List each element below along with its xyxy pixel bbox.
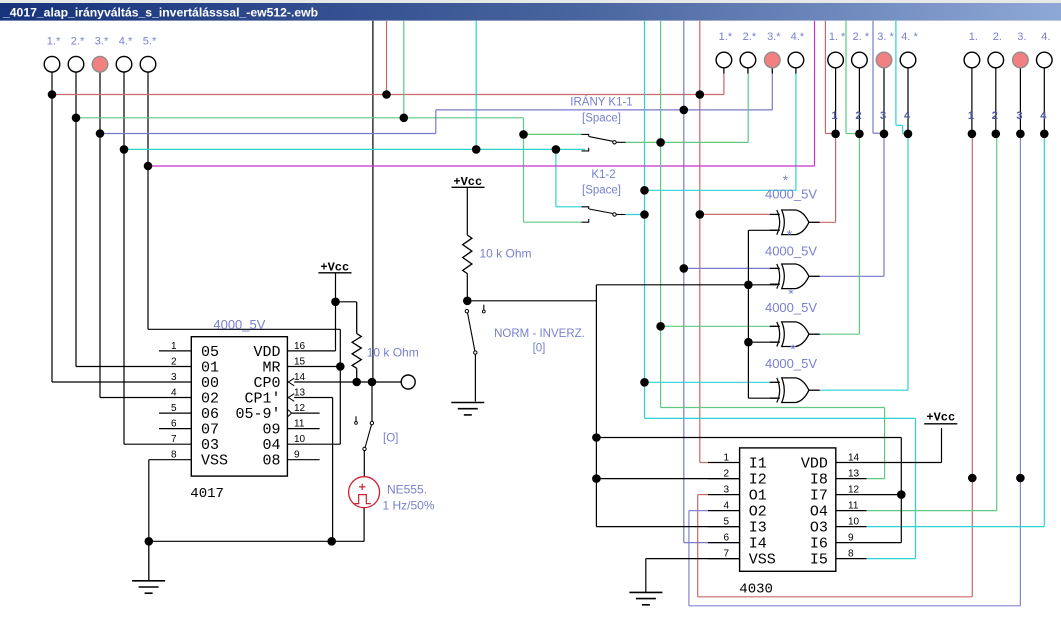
svg-text:[0]: [0] (533, 343, 546, 355)
svg-text:*: * (790, 341, 796, 357)
svg-text:[Space]: [Space] (582, 113, 621, 125)
svg-text:4000_5V: 4000_5V (765, 300, 817, 315)
svg-text:1: 1 (832, 110, 838, 122)
svg-text:2.*: 2.* (71, 36, 85, 48)
svg-text:2: 2 (855, 110, 861, 122)
svg-text:8: 8 (171, 450, 177, 461)
svg-text:13: 13 (294, 388, 306, 399)
svg-text:4: 4 (723, 501, 729, 512)
svg-text:14: 14 (294, 372, 306, 383)
svg-text:K1-2: K1-2 (591, 169, 615, 181)
svg-text:05-9': 05-9' (235, 406, 280, 423)
svg-text:VDD: VDD (801, 456, 828, 473)
svg-text:12: 12 (848, 485, 860, 496)
svg-text:13: 13 (848, 469, 860, 480)
svg-text:NE555.: NE555. (387, 483, 427, 497)
svg-text:3.*: 3.* (95, 36, 109, 48)
svg-text:1: 1 (723, 453, 729, 464)
svg-text:3: 3 (1016, 110, 1022, 122)
svg-text:10: 10 (294, 434, 306, 445)
svg-text:NORM - INVERZ.: NORM - INVERZ. (494, 328, 585, 340)
svg-text:+Vcc: +Vcc (926, 411, 955, 425)
svg-text:*: * (788, 286, 794, 302)
svg-text:1. *: 1. * (829, 31, 846, 43)
svg-text:I4: I4 (749, 536, 767, 553)
svg-text:1 Hz/50%: 1 Hz/50% (383, 499, 435, 513)
svg-text:4: 4 (1040, 110, 1047, 122)
svg-text:CP1': CP1' (244, 391, 280, 408)
svg-text:[O]: [O] (383, 433, 398, 445)
svg-text:I3: I3 (749, 520, 767, 537)
svg-text:04: 04 (262, 437, 280, 454)
svg-text:4000_5V: 4000_5V (765, 243, 817, 258)
svg-text:+Vcc: +Vcc (453, 175, 482, 189)
svg-text:2. *: 2. * (853, 31, 870, 43)
svg-text:*: * (787, 227, 793, 243)
svg-text:2: 2 (992, 110, 998, 122)
svg-text:IRÁNY K1-1: IRÁNY K1-1 (570, 96, 632, 109)
svg-text:11: 11 (848, 501, 859, 512)
svg-text:3: 3 (880, 110, 886, 122)
svg-text:12: 12 (294, 403, 306, 414)
svg-text:4. *: 4. * (901, 31, 918, 43)
svg-text:3: 3 (723, 485, 729, 496)
svg-text:10: 10 (848, 517, 860, 528)
svg-text:4.*: 4.* (791, 31, 805, 43)
svg-text:6: 6 (171, 419, 177, 430)
svg-text:03: 03 (201, 437, 219, 454)
svg-text:14: 14 (848, 453, 860, 464)
svg-text:4000_5V: 4000_5V (213, 317, 265, 332)
svg-text:*: * (783, 172, 789, 188)
svg-text:I2: I2 (749, 472, 767, 489)
svg-text:3: 3 (171, 372, 177, 383)
svg-text:4.: 4. (1041, 31, 1050, 43)
svg-text:9: 9 (848, 533, 854, 544)
svg-text:7: 7 (723, 549, 729, 560)
svg-text:O2: O2 (749, 504, 767, 521)
svg-text:4: 4 (904, 110, 911, 122)
svg-text:+Vcc: +Vcc (320, 261, 349, 275)
svg-text:I8: I8 (810, 472, 828, 489)
svg-text:2: 2 (723, 469, 729, 480)
svg-text:15: 15 (294, 357, 306, 368)
svg-text:4000_5V: 4000_5V (765, 187, 817, 202)
svg-text:3. *: 3. * (877, 31, 894, 43)
svg-text:1.: 1. (969, 31, 978, 43)
svg-text:6: 6 (723, 533, 729, 544)
svg-text:5: 5 (723, 517, 729, 528)
svg-text:07: 07 (201, 422, 219, 439)
svg-text:[Space]: [Space] (582, 185, 621, 197)
svg-text:01: 01 (201, 360, 219, 377)
svg-text:9: 9 (294, 450, 300, 461)
svg-text:2.: 2. (993, 31, 1002, 43)
svg-text:4: 4 (171, 388, 177, 399)
svg-text:02: 02 (201, 391, 219, 408)
svg-text:10 k Ohm: 10 k Ohm (480, 247, 532, 261)
svg-text:CP0: CP0 (253, 375, 280, 392)
svg-text:I7: I7 (810, 488, 828, 505)
svg-text:09: 09 (262, 422, 280, 439)
svg-text:5.*: 5.* (143, 36, 157, 48)
svg-text:8: 8 (848, 549, 854, 560)
svg-text:4000_5V: 4000_5V (765, 356, 817, 371)
svg-text:I5: I5 (810, 552, 828, 569)
svg-text:_4017_alap_irányváltás_s_inver: _4017_alap_irányváltás_s_invertálásssal_… (2, 6, 318, 20)
svg-text:2: 2 (171, 357, 177, 368)
svg-text:MR: MR (262, 360, 280, 377)
svg-text:4030: 4030 (739, 582, 773, 598)
svg-text:10 k Ohm: 10 k Ohm (367, 346, 419, 360)
svg-text:2.*: 2.* (743, 31, 757, 43)
svg-text:VDD: VDD (253, 344, 280, 361)
svg-text:I6: I6 (810, 536, 828, 553)
svg-text:1: 1 (171, 341, 177, 352)
svg-text:VSS: VSS (749, 552, 776, 569)
svg-text:7: 7 (171, 434, 177, 445)
svg-text:00: 00 (201, 375, 219, 392)
svg-text:O4: O4 (810, 504, 828, 521)
svg-text:3.: 3. (1017, 31, 1026, 43)
svg-text:05: 05 (201, 344, 219, 361)
svg-text:O1: O1 (749, 488, 767, 505)
svg-text:06: 06 (201, 406, 219, 423)
svg-text:3.*: 3.* (767, 31, 781, 43)
svg-text:1.*: 1.* (719, 31, 733, 43)
svg-text:16: 16 (294, 341, 306, 352)
svg-text:5: 5 (171, 403, 177, 414)
svg-text:O3: O3 (810, 520, 828, 537)
svg-text:VSS: VSS (201, 453, 228, 470)
svg-text:4017: 4017 (190, 486, 224, 502)
svg-text:08: 08 (262, 453, 280, 470)
svg-text:1: 1 (968, 110, 974, 122)
svg-text:11: 11 (294, 419, 305, 430)
svg-text:4.*: 4.* (119, 36, 133, 48)
svg-text:I1: I1 (749, 456, 767, 473)
svg-text:1.*: 1.* (47, 36, 61, 48)
